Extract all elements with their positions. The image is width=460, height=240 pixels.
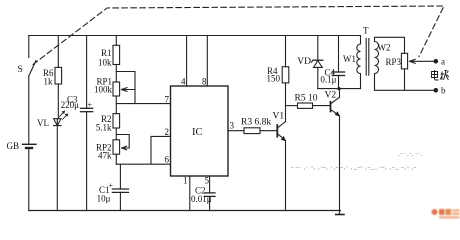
wire RP1 to R2	[115, 96, 117, 114]
capacitor C1	[112, 189, 128, 192]
svg-text:W1: W1	[343, 54, 356, 64]
node terminal b	[434, 88, 439, 93]
LED VL	[54, 119, 61, 126]
svg-text:10k: 10k	[98, 58, 112, 68]
wire pin 5	[209, 176, 211, 193]
wire left rail lower (switch to battery to ground)	[28, 76, 30, 210]
RP2 wiper tie bracket	[116, 135, 129, 149]
diode VD	[313, 59, 323, 61]
wire bottom ground rail	[29, 210, 341, 212]
svg-text:0.01μ: 0.01μ	[191, 194, 212, 204]
resistor R5	[298, 103, 313, 108]
mechanical linkage dashed line	[33, 6, 444, 65]
svg-text:8: 8	[202, 77, 207, 87]
resistor R3	[244, 128, 260, 134]
wire W2 top to RP3	[375, 37, 405, 53]
wire RP3 bottom	[404, 69, 406, 90]
svg-text:+: +	[109, 181, 114, 190]
svg-text:47k: 47k	[98, 151, 112, 161]
op-amp timer IC U1 box	[171, 86, 229, 176]
wire R1 to RP1	[115, 65, 117, 83]
resistor R4	[282, 67, 289, 83]
node V2 collector junction dot	[337, 87, 340, 90]
svg-text:5.1k: 5.1k	[96, 123, 112, 133]
svg-text:RP3: RP3	[385, 57, 401, 67]
wire C1 drop	[119, 164, 121, 189]
wire top supply rail	[29, 35, 361, 37]
wire pin 4	[186, 36, 188, 87]
wire C2 to ground rail	[209, 196, 211, 210]
battery GB	[23, 143, 37, 145]
wire W2 bottom to b line	[375, 74, 436, 91]
wire RP2 to junction	[115, 154, 117, 164]
wire C1 to ground rail	[119, 192, 121, 210]
wire C3 to ground rail	[86, 112, 88, 210]
svg-text:3: 3	[230, 121, 235, 131]
watermark bottom right logo	[432, 209, 460, 219]
wire pins 2-6 net	[116, 136, 170, 164]
svg-text:4: 4	[181, 77, 186, 87]
svg-text:VD: VD	[297, 57, 311, 67]
svg-text:10μ: 10μ	[97, 194, 111, 204]
wire C3 column top	[86, 36, 88, 109]
svg-text:T: T	[363, 26, 369, 36]
transformer core	[365, 39, 367, 76]
RP3 wiper arrow to terminal a	[410, 59, 436, 63]
wire pin 1	[189, 176, 191, 210]
wire pin 3 stub	[228, 130, 244, 132]
svg-text:2: 2	[165, 127, 170, 137]
label electrode 电极 (drawn glyphs)	[432, 70, 449, 80]
svg-text:6: 6	[165, 155, 170, 165]
wire pin 7 net	[116, 103, 170, 105]
svg-text:1k: 1k	[44, 77, 54, 87]
resistor R6	[55, 67, 62, 84]
svg-text:5: 5	[205, 176, 210, 186]
transistor V2	[330, 102, 332, 112]
svg-text:+: +	[88, 101, 93, 110]
wire VD anode to snubber junction	[317, 67, 319, 88]
svg-text:a: a	[441, 57, 445, 67]
svg-text:W2: W2	[378, 43, 391, 53]
wire junction to R5	[286, 105, 298, 107]
svg-text:V2: V2	[325, 91, 337, 101]
svg-text:IC: IC	[192, 127, 203, 138]
transistor V1	[276, 125, 278, 137]
resistor R1	[113, 45, 120, 64]
svg-text:VL: VL	[37, 118, 49, 128]
capacitor C3	[81, 108, 93, 111]
wire C4 column top	[338, 36, 340, 73]
svg-text:0.1μ: 0.1μ	[320, 75, 336, 85]
capacitor C4	[332, 72, 344, 76]
svg-text:1: 1	[183, 176, 188, 186]
svg-text:·¨ ˙·ˉ· ¨˙·: ·¨ ˙·ˉ· ¨˙·	[398, 152, 422, 160]
transformer secondary W2 winding	[375, 42, 379, 74]
wire VL to ground rail	[56, 126, 58, 210]
svg-text:R1: R1	[101, 48, 112, 58]
wire pin 8	[206, 36, 208, 87]
svg-text:R5 10: R5 10	[295, 94, 318, 104]
wire R4 column top	[285, 36, 287, 67]
ground tick at V2 emitter	[336, 214, 344, 216]
watermark faint text row	[291, 152, 422, 174]
svg-text:ˉ ˉ˙ ·˙ ¨· ·¨ˉ· ˙·ˉ ˉ·˙ ·−ˉ¨ ·: ˉ ˉ˙ ·˙ ¨· ·¨ˉ· ˙·ˉ ˉ·˙ ·−ˉ¨ ·ˉ−· ¨ˉ· ·ˉ…	[291, 165, 417, 174]
wire V1 collector	[285, 106, 287, 122]
svg-text:S: S	[18, 65, 23, 75]
wire R4 to V1 collector junction	[285, 83, 287, 106]
wire R6 to VL	[57, 84, 59, 119]
node terminal a	[434, 59, 439, 64]
wire V2 emitter to ground	[339, 116, 341, 215]
wire R5 to V2 base	[313, 105, 331, 107]
svg-text:R3 6.8k: R3 6.8k	[241, 118, 271, 128]
capacitor C2	[205, 193, 216, 197]
potentiometer RP2	[113, 140, 120, 154]
svg-text:220μ: 220μ	[61, 100, 80, 110]
wire V2 collector	[339, 89, 341, 98]
svg-text:7: 7	[165, 95, 170, 105]
svg-text:b: b	[441, 86, 446, 96]
svg-text:100k: 100k	[94, 85, 113, 95]
wire R6 column top	[57, 36, 59, 68]
wire VD column top	[317, 36, 319, 61]
wire R1-RP1 junction to wiper column	[116, 72, 135, 104]
resistor R2	[113, 114, 120, 128]
svg-text:V1: V1	[273, 112, 285, 122]
wire R2 to RP2	[115, 128, 117, 140]
svg-text:GB: GB	[7, 141, 20, 151]
transformer T primary W1 winding	[357, 36, 361, 89]
wire R1 column top	[115, 36, 117, 46]
wire snubber junction line	[318, 88, 361, 90]
wire R3 to V1 base	[260, 130, 277, 132]
svg-text:150: 150	[267, 74, 281, 84]
RP1 wiper arrow	[122, 88, 136, 92]
wire V1 emitter to ground	[285, 141, 287, 211]
switch S lever	[29, 61, 36, 77]
potentiometer RP3	[401, 53, 407, 69]
wire left rail upper (above switch)	[28, 36, 30, 58]
RP2 wiper arrow	[122, 146, 129, 150]
wire C4 to snubber junction	[338, 76, 340, 89]
potentiometer RP1	[113, 82, 120, 96]
